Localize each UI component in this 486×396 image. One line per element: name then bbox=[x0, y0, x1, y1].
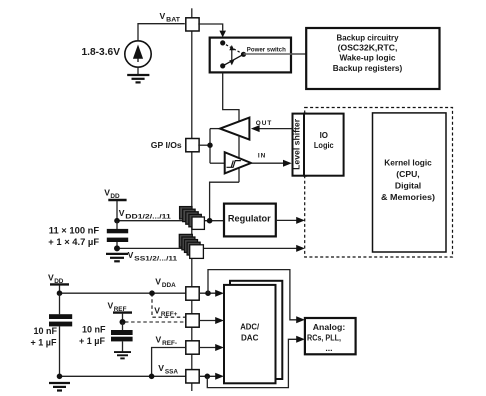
label VDD (upper decoupling rail) bbox=[104, 188, 120, 201]
svg-text:Logic: Logic bbox=[314, 140, 334, 150]
node GP I/O junction dot bbox=[207, 143, 212, 148]
svg-text:SS1/2/.../11: SS1/2/.../11 bbox=[134, 255, 178, 262]
wire chip edge VBAT pin to GP I/Os pin bbox=[191, 31, 193, 139]
kernel logic box bbox=[373, 113, 447, 252]
transistor IN buffer (Schmitt trigger, points right) bbox=[225, 152, 251, 173]
wire source to VBAT pin bbox=[138, 24, 185, 41]
svg-text:(CPU,: (CPU, bbox=[396, 169, 419, 179]
label VDD (analog section) bbox=[48, 273, 64, 286]
node VDD regulator junction dot bbox=[207, 218, 213, 224]
wire chip edge top stub above VBAT pin bbox=[191, 8, 193, 17]
svg-text:V: V bbox=[48, 273, 54, 283]
power symbol VDD bar (analog) bbox=[50, 284, 69, 293]
pin VBAT bbox=[186, 18, 199, 31]
svg-text:Level shifter: Level shifter bbox=[292, 118, 302, 170]
wire chip edge VDDA to VREF+ pin bbox=[191, 300, 193, 314]
power symbol VDD bar bbox=[108, 200, 126, 221]
wire VSSA rail bbox=[60, 375, 186, 377]
wire OUT from level shifter with left arrow bbox=[251, 125, 293, 132]
dashed box core domain bbox=[305, 108, 453, 258]
wire VSS rail to core with arrow bbox=[117, 245, 305, 252]
svg-text:Kernel logic: Kernel logic bbox=[384, 157, 432, 167]
level shifter box bbox=[293, 114, 307, 176]
node VREF cap dot bbox=[120, 319, 126, 325]
svg-text:BAT: BAT bbox=[166, 17, 180, 24]
node VREF+ tap dot bbox=[149, 290, 155, 296]
pin stack VDD1/2/.../11 bbox=[180, 207, 205, 230]
value label 10nF + 1uF bbox=[31, 326, 58, 348]
label VREF- bbox=[156, 334, 178, 347]
label VBAT bbox=[160, 11, 181, 24]
wire source bottom stub bbox=[137, 67, 139, 74]
ground below C1 bbox=[106, 254, 128, 261]
svg-text:V: V bbox=[128, 250, 134, 260]
wire VSSA pin to ADC with arrow bbox=[199, 373, 224, 380]
node VSSA loop dot bbox=[205, 374, 211, 380]
voltage source V1 1.8-3.6V bbox=[125, 41, 151, 67]
wire regulator to core with arrow bbox=[276, 217, 305, 224]
svg-text:Backup circuitry: Backup circuitry bbox=[337, 32, 399, 42]
wire VREF- to VSSA rail bbox=[152, 348, 186, 377]
svg-text:V: V bbox=[155, 277, 161, 287]
capacitor C3 10nF+1uF bbox=[111, 322, 133, 351]
svg-text:V: V bbox=[154, 305, 160, 315]
wire VDDA pin to ADC with arrow bbox=[199, 290, 224, 297]
svg-text:(OSC32K,RTC,: (OSC32K,RTC, bbox=[338, 43, 398, 53]
svg-text:DD1/2/.../11: DD1/2/.../11 bbox=[125, 213, 171, 220]
ground below source bbox=[127, 75, 149, 82]
ADC/DAC block back rectangle bbox=[230, 281, 282, 379]
wire IN to level shifter with right arrow bbox=[251, 160, 292, 167]
node VSS cap junction dot bbox=[114, 245, 120, 251]
switch solid throw to bottom contact bbox=[223, 54, 244, 66]
svg-text:V: V bbox=[119, 208, 125, 218]
node VDDA loop dot bbox=[205, 290, 211, 296]
svg-text:+ 1 µF: + 1 µF bbox=[79, 336, 105, 346]
svg-text:+ 1 × 4.7 µF: + 1 × 4.7 µF bbox=[48, 236, 99, 247]
svg-text:Backup registers): Backup registers) bbox=[333, 63, 403, 73]
svg-text:IN: IN bbox=[258, 152, 266, 159]
svg-text:Regulator: Regulator bbox=[228, 214, 271, 224]
svg-text:V: V bbox=[156, 334, 162, 344]
wire power switch bottom to OUT buffer supply bbox=[223, 73, 239, 122]
svg-text:Power switch: Power switch bbox=[247, 47, 286, 54]
backup circuitry box U2 bbox=[306, 28, 439, 89]
regulator box U3 bbox=[224, 204, 276, 237]
switch contact dot bottom bbox=[220, 63, 225, 68]
value label 11 x 100 nF + 1 x 4.7 uF bbox=[48, 225, 99, 248]
node VREF- junction dot bbox=[149, 374, 155, 380]
wire VREF- pin to ADC with arrow bbox=[199, 344, 224, 351]
switch contact dot top bbox=[220, 40, 225, 45]
pin VSSA bbox=[186, 370, 199, 383]
wire dashed VDDA to VREF+ bbox=[152, 293, 186, 317]
ADC/DAC block front rectangle bbox=[224, 285, 276, 383]
svg-text:OUT: OUT bbox=[256, 120, 272, 127]
svg-text:Wake-up logic: Wake-up logic bbox=[340, 53, 396, 63]
svg-text:+ 1 µF: + 1 µF bbox=[31, 338, 57, 348]
svg-text:& Memories): & Memories) bbox=[381, 192, 435, 202]
power switch box bbox=[210, 38, 291, 73]
label VSS1/2/.../11 bbox=[128, 250, 178, 263]
svg-text:V: V bbox=[160, 11, 166, 21]
switch common node dot bbox=[241, 52, 246, 57]
svg-text:ADC/: ADC/ bbox=[240, 322, 260, 332]
wire buffer supply rail lower segment bbox=[238, 168, 240, 182]
power symbol VREF bar bbox=[113, 313, 132, 322]
svg-text:RCs, PLL,: RCs, PLL, bbox=[307, 333, 341, 343]
svg-text:11 × 100 nF: 11 × 100 nF bbox=[49, 225, 100, 236]
wire buffer supply down to VDD rail bbox=[210, 182, 239, 218]
svg-text:1.8-3.6V: 1.8-3.6V bbox=[82, 47, 121, 58]
node VSSA ground dot bbox=[57, 374, 63, 380]
svg-text:DDA: DDA bbox=[162, 282, 176, 289]
svg-text:Analog:: Analog: bbox=[313, 322, 346, 332]
wire chip edge GP I/Os pin down to VDDA pin behind pin stacks bbox=[191, 152, 193, 287]
node VDD cap junction dot bbox=[114, 218, 120, 224]
capacitor C1 11x100nF bbox=[107, 221, 128, 249]
wire GP I/Os pin to buffers junction bbox=[198, 144, 210, 146]
svg-text:...: ... bbox=[325, 343, 332, 353]
svg-text:IO: IO bbox=[320, 130, 329, 140]
svg-text:GP I/Os: GP I/Os bbox=[151, 140, 182, 150]
label VREF bbox=[108, 301, 127, 314]
label VSSA bbox=[158, 363, 178, 376]
svg-text:REF-: REF- bbox=[162, 340, 177, 347]
svg-text:V: V bbox=[158, 363, 164, 373]
wire VDDA loop around ADC to analog block bbox=[208, 270, 305, 324]
label VREF+ bbox=[154, 305, 177, 318]
wire VDDA rail bbox=[60, 292, 186, 294]
switch toggle double arrow bbox=[229, 45, 234, 65]
wire power switch to backup circuitry bbox=[291, 53, 306, 55]
wire chip edge VREF- to VSSA pin bbox=[191, 354, 193, 369]
wire dashed VREF to VREF+ pin bbox=[125, 321, 186, 323]
value label 10nF + 1uF (C3) bbox=[79, 325, 106, 347]
wire buffer input/output vertical bbox=[209, 129, 211, 164]
svg-text:Digital: Digital bbox=[395, 180, 421, 190]
wire VDD rail to regulator bbox=[117, 220, 224, 222]
ground below C3 bbox=[114, 352, 131, 358]
wire buffer supply rail mid segment bbox=[238, 136, 240, 158]
analog block box bbox=[305, 318, 356, 354]
svg-text:V: V bbox=[108, 301, 114, 311]
pin VDDA bbox=[186, 287, 199, 300]
switch dashed throw to top contact bbox=[223, 43, 244, 54]
op-amp OUT buffer (output driver, points left) bbox=[220, 118, 249, 140]
svg-text:SSA: SSA bbox=[165, 369, 179, 376]
svg-text:DAC: DAC bbox=[241, 332, 259, 342]
pin VREF+ bbox=[186, 314, 199, 327]
label VDD1/2/.../11 bbox=[119, 208, 172, 221]
wire switch common to box edge bbox=[244, 53, 292, 55]
svg-text:V: V bbox=[104, 188, 110, 198]
capacitor C2 10nF+1uF bbox=[49, 293, 72, 376]
pin GP I/Os bbox=[186, 139, 199, 152]
wire VREF+ pin to ADC with arrow bbox=[199, 317, 224, 324]
svg-text:REF+: REF+ bbox=[161, 311, 178, 318]
IO logic box bbox=[304, 114, 344, 176]
node VDD/VDDA dot bbox=[57, 290, 63, 296]
wire VSSA loop around ADC to analog block bbox=[207, 336, 305, 388]
wire chip edge VREF+ to VREF- pin bbox=[191, 327, 193, 341]
pin VREF- bbox=[186, 341, 199, 354]
pin stack VSS1/2/.../11 bbox=[179, 234, 203, 258]
svg-text:10 nF: 10 nF bbox=[82, 325, 106, 335]
schmitt hysteresis symbol bbox=[227, 161, 241, 168]
wire VBAT pin to power switch with down arrow bbox=[198, 24, 226, 37]
wire to IN buffer input bbox=[210, 162, 225, 164]
svg-text:10 nF: 10 nF bbox=[34, 326, 58, 336]
label VDDA bbox=[155, 277, 176, 290]
wire to OUT buffer tip bbox=[210, 128, 220, 130]
wire chip edge bottom stub below VSSA pin bbox=[191, 383, 193, 391]
ground below C2 bbox=[49, 383, 70, 391]
